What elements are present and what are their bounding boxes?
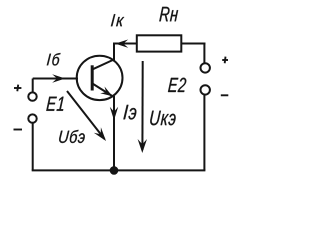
wire right vertical lower <box>203 95 205 171</box>
voltage arrow Ube head <box>94 127 106 141</box>
voltage arrow Ube diagonal line <box>67 91 105 139</box>
label Ie <box>123 105 136 120</box>
terminal E1 plus <box>28 92 36 100</box>
wire left vertical to rail <box>32 123 34 171</box>
voltage arrow Uke head <box>138 139 147 153</box>
transistor base bar <box>91 65 94 90</box>
wire base horizontal <box>33 78 78 80</box>
transistor VT body circle <box>77 56 123 100</box>
label Ib <box>47 53 61 66</box>
current arrow Ie on emitter wire <box>110 107 118 121</box>
label Ik <box>111 14 124 26</box>
label minus left <box>14 129 23 131</box>
label minus right <box>221 94 229 96</box>
resistor RH body <box>137 35 182 51</box>
wire resistor to right corner <box>181 43 205 45</box>
label RH <box>159 7 178 21</box>
label plus left <box>14 87 21 89</box>
terminal E2 plus <box>201 63 210 72</box>
wire collector vertical <box>113 43 115 61</box>
label E2 <box>168 78 186 92</box>
label Ube <box>59 130 85 143</box>
label plus right <box>222 59 228 61</box>
label Uke <box>150 111 175 126</box>
terminal E2 minus <box>201 85 210 94</box>
current arrow Ik on top wire <box>115 39 128 47</box>
wire left vertical to terminal <box>32 79 34 93</box>
terminal E1 minus <box>28 114 36 122</box>
transistor collector lead <box>93 59 115 69</box>
wire collector top horizontal <box>113 43 137 45</box>
label E1 <box>46 97 63 111</box>
current arrow Ib on base wire <box>52 74 65 82</box>
transistor emitter arrowhead <box>100 87 112 97</box>
wire right vertical upper <box>203 43 205 64</box>
wire emitter vertical <box>113 96 115 170</box>
voltage arrow Uke vertical line <box>141 61 143 150</box>
junction dot <box>110 166 119 175</box>
wire bottom rail <box>32 169 206 171</box>
transistor emitter lead <box>93 84 113 97</box>
